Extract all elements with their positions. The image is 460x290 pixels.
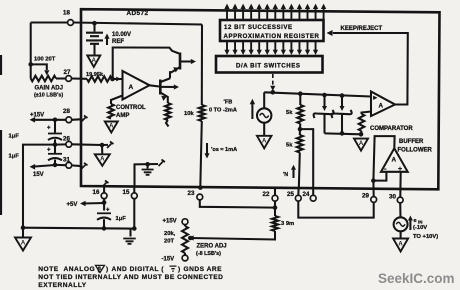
wire emitter resistor open end (166, 120, 169, 127)
node cap1 bottom (53, 142, 58, 147)
wire pin26 into box (72, 143, 102, 146)
svg-text:1μF: 1μF (9, 154, 20, 160)
svg-text:A: A (392, 157, 397, 164)
svg-text:A: A (359, 141, 364, 147)
pin 22 (263, 191, 278, 201)
resistor R 5k lower (286, 129, 303, 189)
label BUFFER FOLLOWER (398, 139, 433, 154)
wire gnd tri stem (101, 145, 103, 154)
analog ground under battery (87, 56, 100, 68)
analog ground under control amp (105, 122, 118, 133)
label GAIN ADJ (34, 86, 63, 99)
node sw2 bottom (340, 131, 345, 136)
label IFB (209, 100, 237, 114)
svg-text:EXTERNALLY: EXTERNALLY (38, 282, 86, 289)
label KEEP/REJECT (341, 26, 383, 32)
wire 10k to pin23 (200, 121, 202, 188)
analog ground under eIN (393, 239, 408, 252)
wire -15V arrow (30, 164, 56, 178)
battery B1 plates (86, 33, 103, 44)
svg-text:TO +10V): TO +10V) (413, 234, 438, 240)
wire buffer plus to pin30 (399, 172, 401, 197)
wire pin15 internal (135, 160, 166, 186)
wire pin22 stem (274, 189, 276, 216)
pin 18 (63, 10, 73, 26)
wire source to gnd (400, 231, 402, 238)
svg-text:CONTROL: CONTROL (116, 105, 146, 111)
svg-text:AMP: AMP (116, 113, 129, 119)
svg-text:29: 29 (362, 193, 369, 200)
wire amp lower input (111, 96, 123, 105)
source eIN circle (394, 217, 408, 231)
resistor R 3.9M (272, 216, 294, 231)
node 5k midpoint (298, 127, 303, 132)
wire A-gnd stem (22, 228, 24, 238)
wire bottom analog bus (23, 227, 134, 230)
svg-text:15V: 15V (33, 172, 44, 178)
svg-text:): ) (106, 266, 109, 273)
wire mid to pin24 drop (300, 129, 313, 189)
block 12-bit SAR box (220, 20, 324, 41)
svg-text:26: 26 (63, 136, 70, 143)
analog ground pin26 (95, 154, 110, 166)
node 10k bottom edge (198, 185, 203, 190)
svg-text:10k: 10k (184, 111, 194, 117)
node pin15 bottom (132, 226, 137, 231)
wire pin30 to source (399, 203, 401, 218)
switch S1 chopper (314, 95, 334, 133)
svg-text:′FB: ′FB (224, 100, 233, 106)
watermark SeekIC.com (378, 271, 455, 286)
svg-text:5k: 5k (286, 143, 293, 149)
svg-text:15: 15 (123, 189, 130, 196)
switch S2 chopper (332, 96, 352, 134)
IC outline U1 AD572 package boundary (81, 9, 440, 189)
wire pin18 rail (31, 23, 202, 25)
svg-text:31: 31 (63, 157, 70, 164)
svg-text:D/A BIT SWITCHES: D/A BIT SWITCHES (236, 63, 300, 70)
svg-text:+15V: +15V (163, 219, 177, 225)
wire pin26 link (55, 143, 66, 145)
zero pot wiper arrow (189, 235, 194, 240)
digital ground internal (142, 164, 154, 175)
node zero wiper (188, 236, 193, 241)
wire summing node to Q1 base loop (113, 48, 179, 80)
svg-text:19.95k: 19.95k (86, 72, 104, 78)
svg-text:A: A (398, 242, 403, 248)
svg-text:20T: 20T (164, 239, 174, 245)
wire pin26 internal stub (102, 142, 114, 149)
pin 29 (362, 193, 377, 203)
pin 16 (93, 189, 108, 199)
wire pin23 to pin22 branch (200, 200, 275, 208)
label CONTROL AMP (116, 105, 146, 119)
current source I-DAC circle (257, 108, 271, 122)
resistor comp minus leg (359, 112, 371, 135)
node digital gnd internal (145, 162, 150, 167)
label +15V (30, 113, 44, 119)
analog ground under source (257, 136, 272, 149)
svg-text:28: 28 (63, 108, 70, 115)
wire switch bottom bus (325, 132, 362, 135)
label D/A BIT SWITCHES (236, 63, 300, 70)
svg-text:′os ≈ 1mA: ′os ≈ 1mA (211, 147, 237, 153)
svg-text:A: A (379, 103, 384, 110)
svg-text:+: + (47, 126, 51, 132)
node sw1 top (322, 93, 327, 98)
arrow eIN (408, 216, 413, 231)
node cap1 top (53, 118, 58, 123)
wire pin25 to pin29 link (298, 201, 373, 218)
transistor Q2 emitter (160, 93, 168, 104)
terminal +15V zero pot (163, 219, 188, 225)
svg-text:24: 24 (303, 191, 310, 198)
wire 3.9M bottom (190, 231, 275, 240)
svg-text:AND DIGITAL (: AND DIGITAL ( (112, 266, 165, 273)
pin 26 (63, 136, 72, 148)
svg-text:16: 16 (93, 189, 100, 196)
svg-text:(±10 LSB’s): (±10 LSB’s) (34, 93, 63, 99)
svg-text:23: 23 (188, 190, 195, 197)
svg-text:(-10V: (-10V (413, 225, 427, 231)
analog ground comparator (354, 139, 368, 151)
battery arrow up (104, 34, 109, 46)
svg-text:FOLLOWER: FOLLOWER (398, 148, 433, 154)
op-amp comparator triangle (371, 92, 395, 117)
svg-text:(-8 LSB’s): (-8 LSB’s) (196, 251, 221, 257)
label 12 BIT SUCCESSIVE (224, 24, 320, 40)
scan edge artifact (0, 55, 2, 215)
resistor R 10k (184, 105, 205, 121)
op-amp buffer triangle (381, 148, 408, 173)
svg-text:+: + (106, 208, 110, 214)
svg-text:COMPARATOR: COMPARATOR (370, 126, 413, 132)
svg-text:25: 25 (287, 191, 294, 198)
svg-text:AD572: AD572 (127, 10, 149, 17)
resistor Q2 emitter leg (165, 103, 171, 120)
pin 31 (63, 157, 72, 169)
svg-text:18: 18 (63, 10, 70, 17)
node pin22 junction (273, 205, 278, 210)
pin 23 (188, 190, 203, 200)
wire amp output to Q2 (150, 84, 180, 89)
svg-text:A: A (100, 157, 105, 163)
wire pin31 into box (72, 163, 88, 170)
svg-text:0 TO -2mA: 0 TO -2mA (209, 108, 237, 114)
label COMPARATOR (370, 126, 413, 132)
node pot left (28, 62, 33, 67)
node comp gnd (359, 132, 364, 137)
current arrow IFB (250, 99, 255, 119)
wire gain-pot left drop (30, 23, 32, 79)
capacitor C1 1uF (9, 120, 63, 145)
wire pin24 stem (312, 190, 314, 196)
pin 28 (63, 108, 72, 123)
svg-text:REF: REF (112, 39, 124, 45)
resistor control-amp gnd leg (108, 104, 114, 119)
svg-text:′N: ′N (283, 172, 288, 178)
svg-text:e: e (414, 218, 418, 224)
current arrow iN (283, 165, 296, 178)
svg-text:): ) (178, 266, 181, 273)
note text line3 (38, 282, 86, 289)
resistor R 19.95k (86, 72, 112, 82)
svg-text:GNDS ARE: GNDS ARE (184, 266, 223, 273)
node battery top (92, 21, 97, 26)
digital ground below bus (123, 229, 136, 244)
label AD572 (127, 10, 149, 17)
note text line2 (38, 274, 223, 281)
svg-text:SeekIC.com: SeekIC.com (378, 271, 455, 286)
svg-text:A: A (98, 267, 102, 273)
op-amp U-control triangle (123, 71, 150, 100)
svg-text:100 20T: 100 20T (34, 57, 56, 63)
transistor Q2 base bar (159, 80, 162, 95)
arrows SAR to DA switches (224, 41, 318, 55)
wire pin16 stem (102, 181, 109, 211)
svg-text:IN: IN (418, 220, 422, 225)
svg-text:3 9m: 3 9m (281, 221, 294, 227)
note text line1 (38, 265, 222, 273)
current source I-DAC stem (263, 92, 265, 108)
resistor R 5k upper (286, 94, 303, 129)
node cap2 bottom (53, 163, 58, 168)
svg-text:APPROXIMATION REGISTER: APPROXIMATION REGISTER (224, 33, 320, 40)
wire +15V to pin28 (30, 117, 66, 123)
wire comparator output to SAR (327, 30, 408, 105)
svg-text:KEEP/REJECT: KEEP/REJECT (341, 26, 383, 32)
node analog gnd inside (100, 143, 105, 148)
svg-text:22: 22 (263, 191, 270, 198)
block D/A BIT SWITCHES box (216, 56, 323, 73)
node sw2 top (340, 93, 345, 98)
wire pin27 into box (72, 77, 88, 79)
svg-text:NOT TIED INTERNALLY AND MUST B: NOT TIED INTERNALLY AND MUST BE CONNECTE… (38, 274, 223, 281)
svg-text:BUFFER: BUFFER (399, 139, 424, 145)
node summing junction (110, 77, 115, 82)
svg-text:27: 27 (64, 69, 71, 76)
wire summing to amp + (113, 77, 123, 82)
transistor Q1 lower lead (170, 67, 180, 78)
node left rail bottom (21, 225, 26, 230)
wire pin31 link (55, 164, 66, 166)
battery B1 10.00V REF stem (93, 23, 95, 31)
svg-text:ZERO ADJ: ZERO ADJ (197, 244, 227, 250)
potentiometer R-gain 100 20T (31, 57, 56, 82)
terminal -15V zero pot (162, 253, 188, 263)
node dashed junction (271, 90, 276, 95)
svg-text:A: A (21, 241, 26, 247)
pin 27 (64, 69, 72, 81)
pin 30 (389, 194, 403, 203)
potentiometer R-zero 20k 20T (164, 225, 188, 253)
transistor Q1 base bar (179, 53, 182, 70)
node +5V tap (102, 200, 107, 205)
battery ground stem (93, 44, 95, 56)
wire pot wiper loop (31, 64, 50, 75)
svg-text:5k: 5k (286, 110, 293, 116)
svg-text:+: + (47, 148, 51, 154)
wire pot to pin27 (56, 77, 66, 79)
pin 25 (287, 191, 301, 201)
wire pin25 stem (297, 189, 299, 195)
wire pin15 stem (133, 186, 135, 229)
wire summing rail (264, 92, 371, 96)
svg-text:ANALOG (: ANALOG ( (64, 266, 101, 273)
wire buffer out to pin29 (372, 181, 374, 197)
svg-text:-15V: -15V (162, 257, 175, 263)
capacitor C2 1uF (9, 145, 63, 165)
pin 15 (123, 189, 138, 199)
svg-text:1μF: 1μF (116, 216, 127, 222)
svg-text:30: 30 (389, 194, 396, 201)
svg-text:A: A (92, 58, 97, 64)
node 5k1 top (298, 91, 303, 96)
wire left rail (23, 145, 55, 228)
wire +5V arrow (67, 201, 105, 208)
svg-text:+5V: +5V (67, 202, 78, 208)
svg-text:GAIN ADJ: GAIN ADJ (35, 86, 63, 92)
current arrow Ios (204, 143, 237, 159)
transistor Q1 emitter arrow right (180, 59, 196, 64)
svg-text:A: A (109, 124, 114, 130)
svg-text:20k,: 20k, (164, 231, 176, 237)
transistor Q2 collector lead (161, 78, 171, 82)
svg-text:A: A (262, 139, 267, 145)
wire source to gnd (263, 123, 265, 136)
node cap3 bottom (102, 226, 107, 231)
svg-text:NOTE: NOTE (38, 266, 58, 273)
svg-text:1μF: 1μF (9, 134, 20, 140)
svg-text:10.00V: 10.00V (112, 32, 131, 38)
label 10.00V REF (112, 32, 131, 45)
wire buffer feedback loop (373, 136, 394, 181)
svg-text:12 BIT SUCCESSIVE: 12 BIT SUCCESSIVE (224, 24, 293, 31)
label eIN range (413, 218, 438, 240)
label ZERO ADJ (196, 244, 227, 258)
dashed link DA to current source (270, 74, 275, 91)
node buffer output (371, 178, 376, 183)
svg-text:+15V: +15V (30, 113, 44, 119)
wire ref rail to 10k (201, 25, 203, 106)
wire pin28 into box (72, 116, 88, 123)
data output arrows above SAR (224, 4, 326, 20)
analog ground bottom left (15, 238, 31, 251)
svg-text:A: A (129, 84, 134, 91)
capacitor C3 1uF (97, 208, 126, 229)
pin 24 (303, 191, 317, 201)
